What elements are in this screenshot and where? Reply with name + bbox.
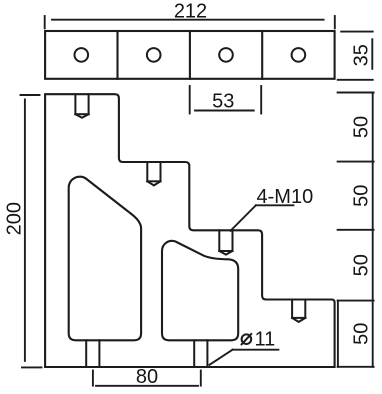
M10 hole 4 — [292, 300, 305, 322]
hole circle 2 — [147, 48, 161, 62]
pocket 2 — [162, 241, 238, 340]
cell divider 1 — [116, 31, 118, 79]
svg-text:11: 11 — [255, 329, 276, 351]
dim 212 — [45, 16, 335, 28]
dim 35 — [338, 32, 373, 80]
svg-text:50: 50 — [350, 116, 372, 138]
dim 200 — [21, 95, 42, 367]
M10 hole 3 — [219, 230, 232, 254]
slot 1 — [86, 340, 99, 367]
label dia 11 symbol — [241, 333, 252, 345]
leader dia 11 — [210, 350, 279, 365]
leader 4-M10 — [231, 205, 294, 231]
dim 53 — [190, 86, 262, 114]
svg-text:50: 50 — [350, 323, 372, 345]
front view stepped outline — [45, 94, 335, 367]
M10 hole 2 — [147, 162, 160, 185]
svg-text:50: 50 — [350, 254, 372, 276]
cell divider 3 — [261, 31, 263, 79]
svg-text:50: 50 — [350, 185, 372, 207]
svg-text:80: 80 — [136, 366, 158, 388]
M10 hole 1 — [75, 94, 88, 118]
hole circle 4 — [292, 48, 306, 62]
top view plate outline — [45, 31, 335, 79]
svg-text:53: 53 — [212, 91, 234, 113]
svg-text:4-M10: 4-M10 — [257, 186, 314, 208]
svg-text:212: 212 — [174, 1, 207, 23]
dim 50 chain right — [338, 93, 374, 367]
hole circle 1 — [75, 48, 89, 62]
svg-text:200: 200 — [3, 202, 25, 235]
pocket 1 — [69, 177, 141, 341]
dim 80 — [93, 371, 201, 386]
svg-text:35: 35 — [350, 44, 372, 66]
slot 2 — [194, 340, 207, 367]
cell divider 2 — [189, 31, 191, 79]
hole circle 3 — [219, 48, 233, 62]
